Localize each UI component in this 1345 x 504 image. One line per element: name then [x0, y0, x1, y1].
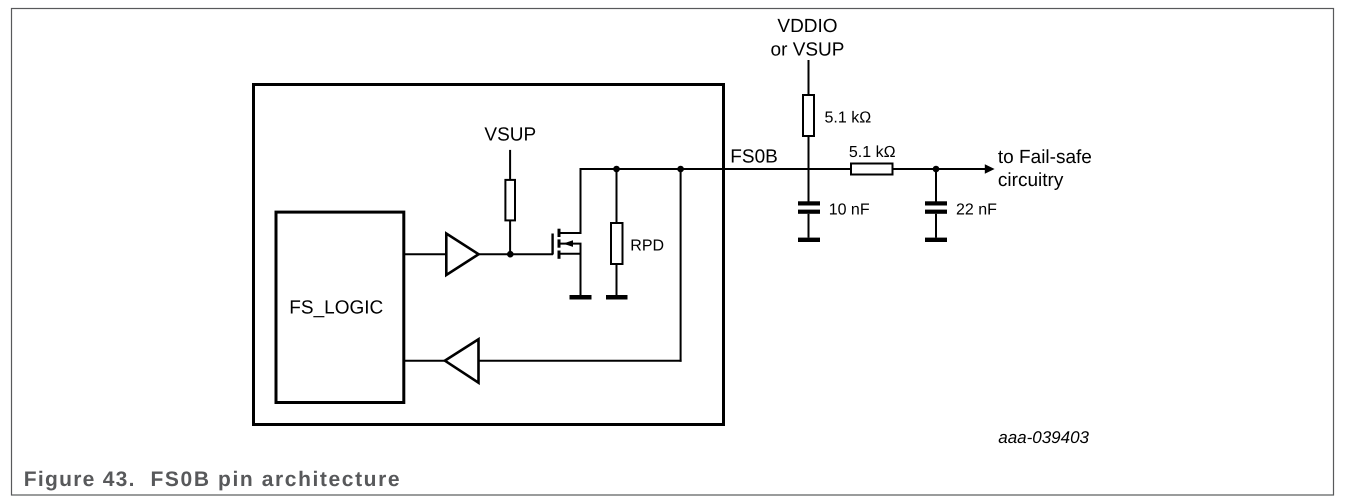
wire resistor R_vsup to gate node: [509, 220, 511, 254]
svg-text:FS0B pin architecture: FS0B pin architecture: [151, 468, 402, 491]
capacitor C2 22 nF bottom plate: [925, 210, 947, 214]
ground C1: [798, 238, 820, 242]
wire feedback vertical: [680, 169, 682, 362]
block FS_LOGIC: [276, 212, 404, 402]
buffer U1 (driver, points right): [446, 234, 478, 276]
wire Q1 drain to FS0B line: [559, 169, 581, 233]
wire C2 top: [935, 169, 937, 202]
resistor R1 pull-up 5.1 kOhm: [803, 95, 814, 136]
resistor RPD: [611, 223, 623, 264]
wire RPD top: [616, 169, 618, 223]
transistor Q1 channel segment source: [558, 251, 561, 259]
svg-text:VSUP: VSUP: [484, 125, 536, 146]
node gate/VSUP junction: [507, 251, 514, 258]
wire feedback horizontal to buffer U2: [479, 360, 682, 362]
ground Q1 source: [570, 295, 592, 300]
buffer U2 (feedback, points left): [445, 339, 479, 382]
svg-text:5.1 kΩ: 5.1 kΩ: [825, 109, 872, 126]
svg-text:FS0B: FS0B: [730, 147, 778, 168]
transistor Q1 gate bar: [551, 234, 553, 255]
svg-text:aaa-039403: aaa-039403: [998, 428, 1089, 447]
transistor Q1 body arrow: [563, 240, 573, 247]
capacitor C2 22 nF top plate: [925, 201, 947, 205]
ground RPD: [606, 295, 628, 300]
svg-text:circuitry: circuitry: [998, 170, 1064, 191]
wire buffer U1 output to MOSFET gate: [479, 253, 553, 255]
svg-text:5.1 kΩ: 5.1 kΩ: [849, 144, 896, 161]
capacitor C1 10 nF bottom plate: [798, 210, 820, 214]
node feedback junction on FS0B line: [677, 166, 684, 173]
transistor Q1 channel segment drain: [558, 229, 561, 237]
svg-text:Figure 43.: Figure 43.: [24, 468, 136, 491]
IC boundary box: [254, 85, 724, 425]
node output junction C2: [933, 166, 940, 173]
ground C2: [925, 238, 947, 242]
svg-text:22 nF: 22 nF: [956, 202, 997, 219]
wire FS_LOGIC output to buffer U1: [405, 253, 447, 255]
resistor R2 series 5.1 kOhm: [851, 164, 893, 175]
wire buffer U2 output to FS_LOGIC: [405, 360, 445, 362]
wire VDDIO to pull-up resistor R1: [808, 60, 810, 95]
transistor Q1 channel segment body: [558, 239, 561, 247]
svg-text:RPD: RPD: [630, 238, 664, 255]
wire VSUP to resistor R_vsup: [509, 150, 511, 180]
wire R1 bottom through FS0B line to capacitor C1: [808, 136, 810, 202]
node RPD/FS0B junction: [613, 166, 620, 173]
wire FS0B net (main horizontal): [580, 168, 851, 170]
svg-text:FS_LOGIC: FS_LOGIC: [289, 298, 383, 319]
svg-text:or VSUP: or VSUP: [771, 40, 845, 61]
capacitor C1 10 nF top plate: [798, 201, 820, 205]
wire C1 to ground: [808, 214, 810, 238]
wire Q1 body and source to ground: [559, 244, 581, 295]
wire RPD bottom to ground: [616, 265, 618, 296]
svg-text:10 nF: 10 nF: [829, 202, 870, 219]
svg-text:VDDIO: VDDIO: [777, 16, 837, 37]
wire R2 to output node: [893, 168, 986, 170]
arrow to fail-safe circuitry: [985, 164, 995, 173]
resistor R_vsup (VSUP pull-up): [505, 180, 515, 221]
svg-text:to Fail-safe: to Fail-safe: [998, 147, 1092, 168]
wire C2 to ground: [935, 214, 937, 238]
